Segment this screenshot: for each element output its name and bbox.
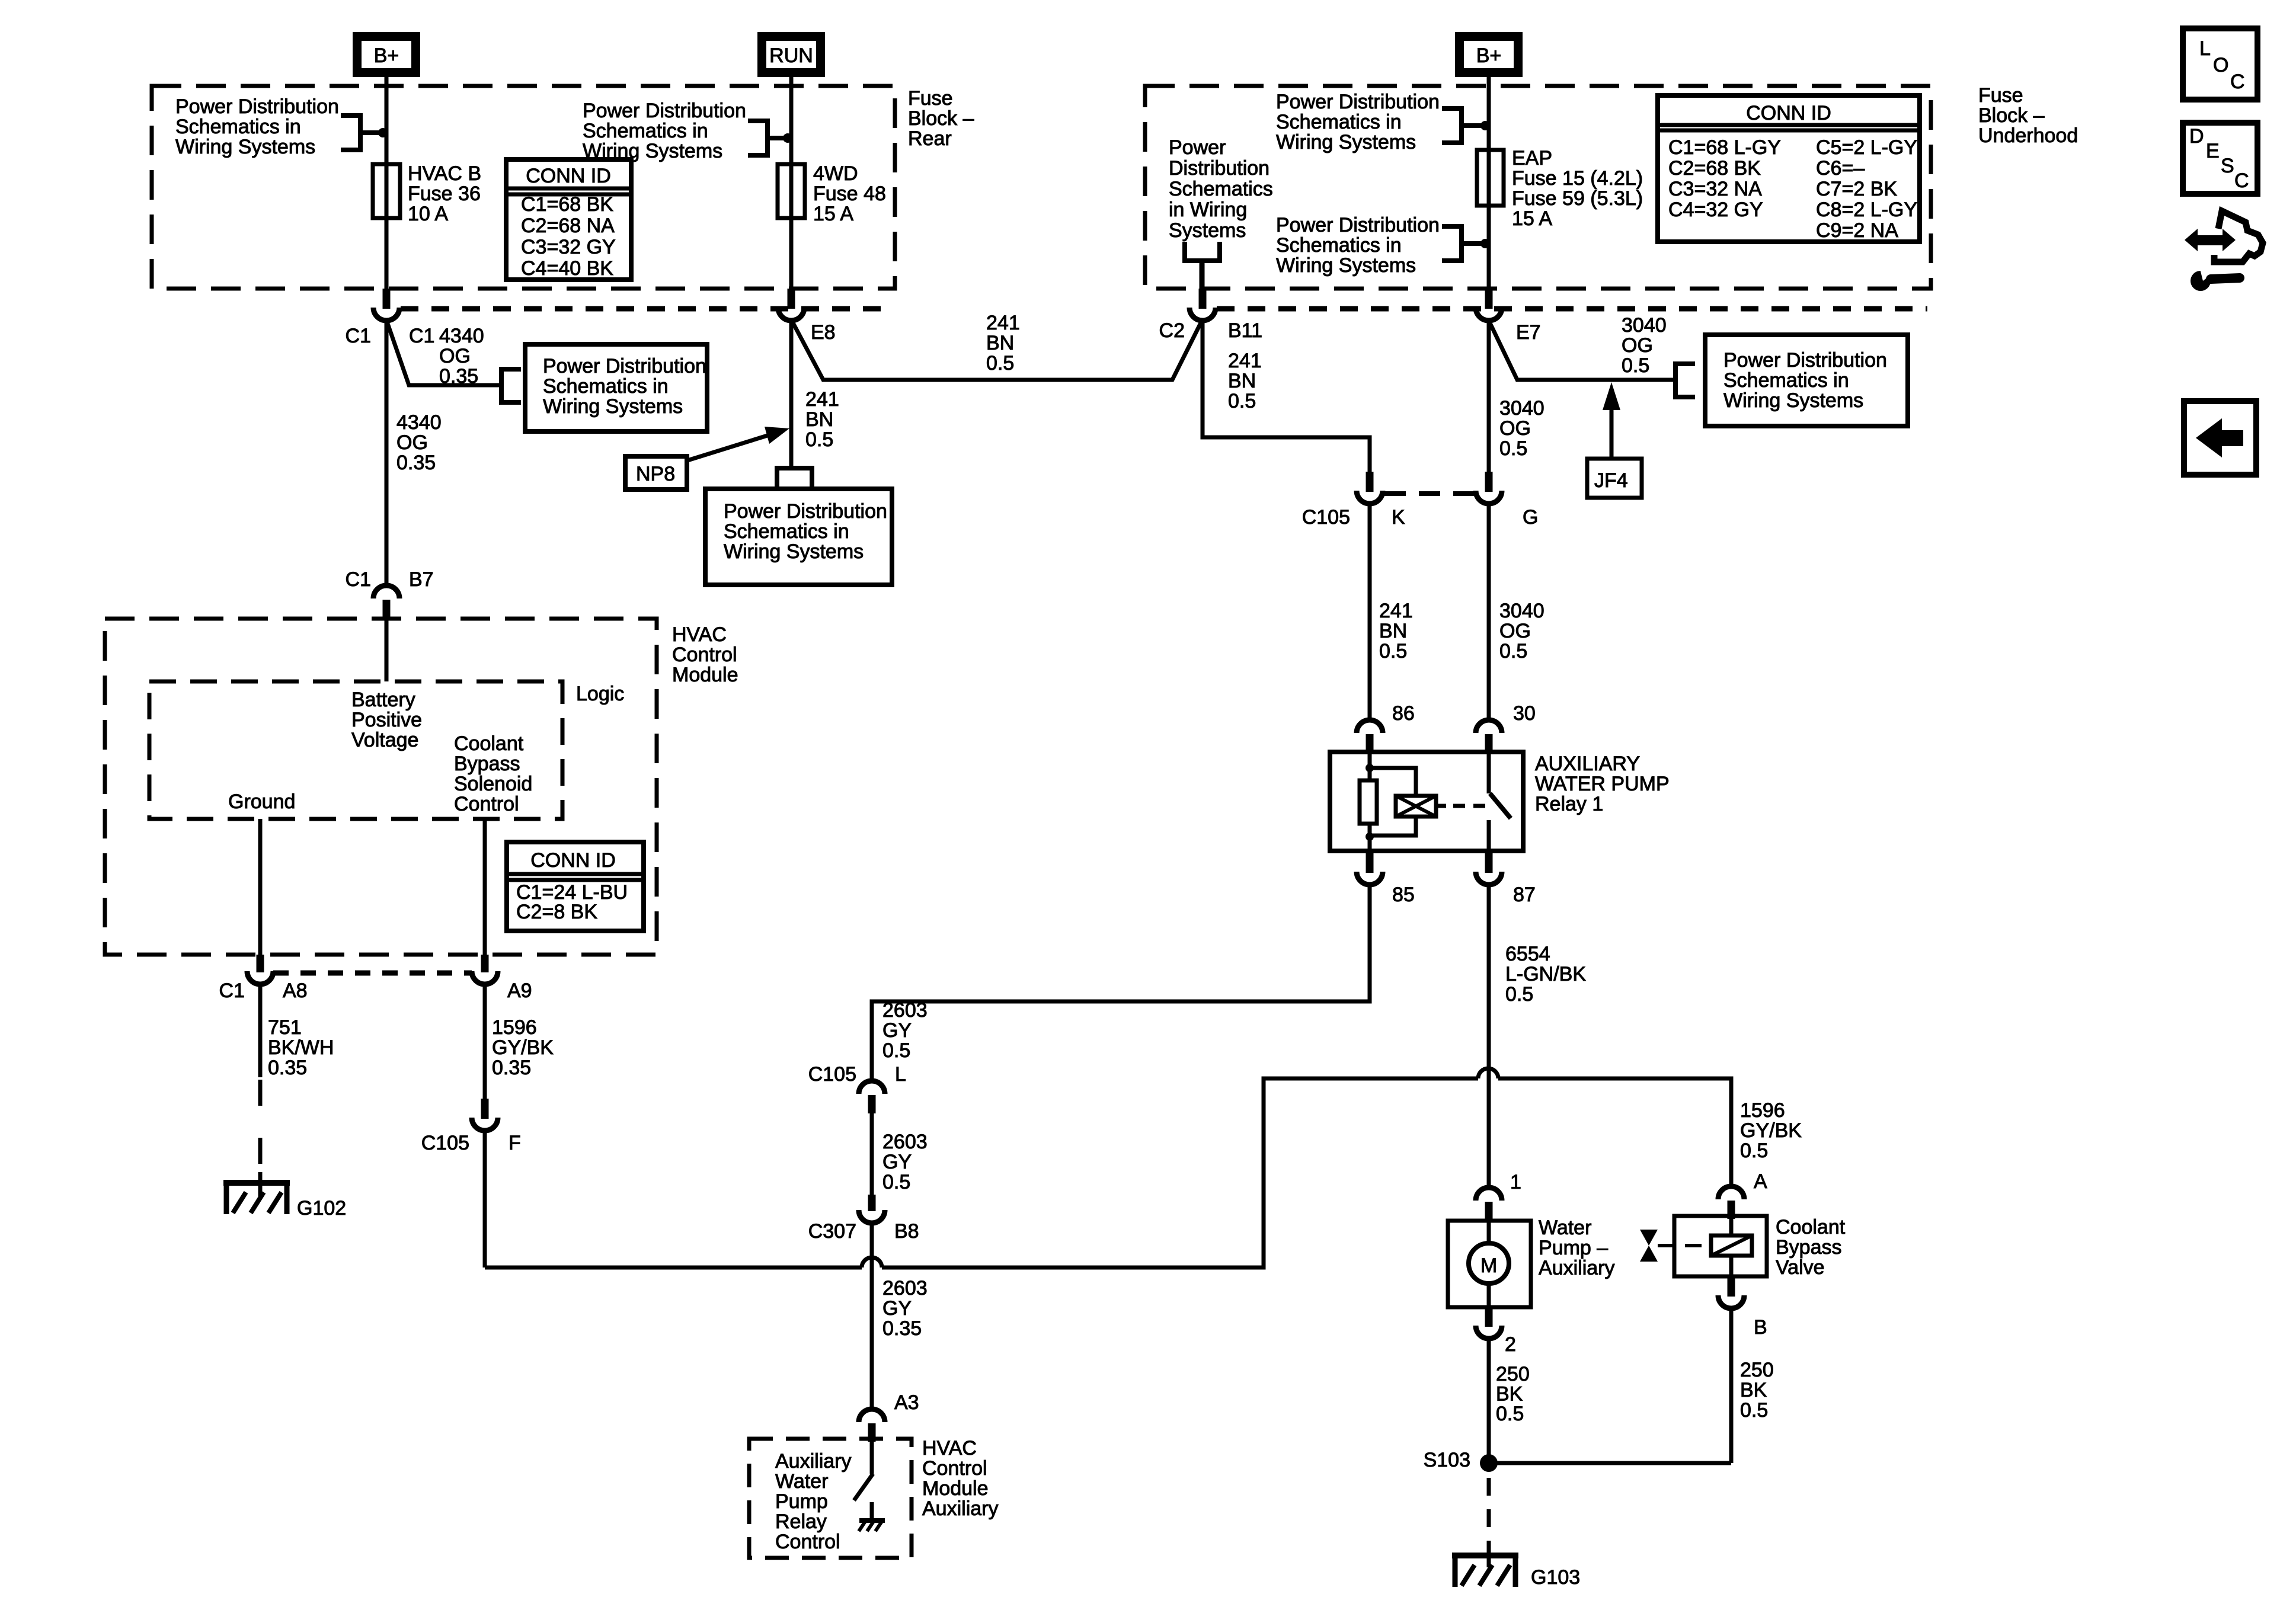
svg-text:A8: A8 bbox=[283, 980, 308, 1002]
svg-text:3040: 3040 bbox=[1499, 600, 1544, 622]
svg-text:CONN ID: CONN ID bbox=[530, 849, 616, 872]
svg-text:Voltage: Voltage bbox=[351, 729, 418, 751]
svg-text:C1: C1 bbox=[409, 325, 434, 347]
svg-text:Power Distribution: Power Distribution bbox=[1276, 214, 1440, 236]
svg-text:15 A: 15 A bbox=[1512, 207, 1552, 230]
svg-text:Schematics in: Schematics in bbox=[583, 120, 708, 142]
svg-text:0.5: 0.5 bbox=[1496, 1403, 1524, 1425]
svg-text:EAP: EAP bbox=[1512, 147, 1552, 169]
svg-text:E8: E8 bbox=[811, 321, 836, 344]
svg-text:G102: G102 bbox=[297, 1197, 346, 1219]
svg-text:L-GN/BK: L-GN/BK bbox=[1505, 963, 1586, 985]
svg-text:4340: 4340 bbox=[396, 411, 442, 434]
svg-text:Wiring Systems: Wiring Systems bbox=[543, 395, 683, 418]
svg-text:86: 86 bbox=[1392, 702, 1415, 725]
svg-text:Water: Water bbox=[775, 1470, 828, 1493]
svg-text:Power Distribution: Power Distribution bbox=[1723, 349, 1887, 372]
svg-text:HVAC: HVAC bbox=[922, 1437, 977, 1459]
svg-text:250: 250 bbox=[1496, 1363, 1530, 1385]
svg-text:Wiring Systems: Wiring Systems bbox=[724, 540, 864, 563]
svg-text:OG: OG bbox=[1499, 417, 1531, 440]
svg-text:RUN: RUN bbox=[769, 44, 813, 67]
svg-text:OG: OG bbox=[439, 345, 471, 367]
svg-text:241: 241 bbox=[1228, 350, 1262, 372]
svg-text:241: 241 bbox=[805, 388, 839, 411]
svg-text:Systems: Systems bbox=[1169, 219, 1246, 242]
svg-text:BK/WH: BK/WH bbox=[268, 1036, 334, 1059]
svg-text:C1: C1 bbox=[346, 568, 371, 591]
svg-text:Bypass: Bypass bbox=[1776, 1236, 1842, 1259]
svg-text:C3=32 GY: C3=32 GY bbox=[521, 236, 616, 258]
svg-text:Fuse 36: Fuse 36 bbox=[408, 183, 481, 205]
svg-text:0.35: 0.35 bbox=[492, 1057, 531, 1079]
svg-text:6554: 6554 bbox=[1505, 943, 1550, 965]
svg-text:0.5: 0.5 bbox=[805, 428, 833, 451]
svg-text:E7: E7 bbox=[1516, 321, 1541, 344]
svg-text:2603: 2603 bbox=[882, 1131, 928, 1153]
svg-text:Pump: Pump bbox=[775, 1490, 828, 1513]
svg-text:in Wiring: in Wiring bbox=[1169, 199, 1247, 221]
svg-text:C2=68 BK: C2=68 BK bbox=[1668, 157, 1761, 180]
svg-text:0.5: 0.5 bbox=[882, 1039, 910, 1062]
svg-text:AUXILIARY: AUXILIARY bbox=[1535, 753, 1640, 775]
svg-text:BN: BN bbox=[1228, 370, 1256, 392]
svg-text:C4=40 BK: C4=40 BK bbox=[521, 257, 613, 280]
svg-text:Pump –: Pump – bbox=[1539, 1237, 1608, 1259]
svg-text:Positive: Positive bbox=[351, 709, 422, 731]
svg-text:C1=68 L-GY: C1=68 L-GY bbox=[1668, 136, 1781, 159]
svg-text:C4=32 GY: C4=32 GY bbox=[1668, 199, 1763, 221]
svg-text:Control: Control bbox=[922, 1457, 987, 1480]
svg-text:0.5: 0.5 bbox=[882, 1171, 910, 1193]
svg-text:C: C bbox=[2234, 169, 2249, 192]
svg-text:C105: C105 bbox=[1302, 506, 1350, 529]
svg-text:1596: 1596 bbox=[1740, 1099, 1785, 1122]
svg-text:Control: Control bbox=[672, 644, 737, 666]
svg-text:Fuse 48: Fuse 48 bbox=[813, 183, 886, 205]
svg-text:0.5: 0.5 bbox=[1499, 640, 1527, 662]
svg-text:Distribution: Distribution bbox=[1169, 157, 1269, 180]
svg-text:C2=68 NA: C2=68 NA bbox=[521, 215, 615, 237]
svg-text:0.5: 0.5 bbox=[1499, 437, 1527, 460]
svg-text:C307: C307 bbox=[808, 1220, 856, 1243]
svg-text:Logic: Logic bbox=[576, 683, 624, 705]
svg-text:Control: Control bbox=[454, 793, 519, 815]
svg-text:Schematics in: Schematics in bbox=[1276, 234, 1402, 257]
svg-text:OG: OG bbox=[1622, 334, 1653, 357]
svg-text:Underhood: Underhood bbox=[1978, 124, 2078, 147]
svg-text:D: D bbox=[2189, 125, 2204, 148]
svg-text:Bypass: Bypass bbox=[454, 753, 520, 775]
svg-text:751: 751 bbox=[268, 1016, 302, 1039]
svg-text:G: G bbox=[1523, 506, 1538, 529]
svg-text:87: 87 bbox=[1513, 884, 1536, 906]
svg-text:C9=2 NA: C9=2 NA bbox=[1816, 219, 1898, 242]
svg-text:Relay 1: Relay 1 bbox=[1535, 793, 1603, 815]
svg-text:OG: OG bbox=[396, 431, 428, 454]
svg-text:C5=2 L-GY: C5=2 L-GY bbox=[1816, 136, 1917, 159]
svg-text:Relay: Relay bbox=[775, 1510, 827, 1533]
svg-text:C2: C2 bbox=[1159, 319, 1185, 342]
svg-text:A3: A3 bbox=[894, 1391, 919, 1414]
svg-text:S: S bbox=[2221, 155, 2234, 177]
svg-text:C6=–: C6=– bbox=[1816, 157, 1865, 180]
svg-text:Control: Control bbox=[775, 1531, 840, 1553]
svg-text:BN: BN bbox=[1379, 620, 1407, 642]
svg-text:B7: B7 bbox=[409, 568, 434, 591]
svg-text:Coolant: Coolant bbox=[454, 732, 524, 755]
svg-text:GY: GY bbox=[882, 1151, 912, 1173]
svg-text:241: 241 bbox=[986, 312, 1020, 334]
svg-text:Power: Power bbox=[1169, 136, 1226, 159]
svg-text:C: C bbox=[2230, 71, 2245, 93]
svg-text:GY: GY bbox=[882, 1297, 912, 1320]
svg-text:3040: 3040 bbox=[1622, 314, 1667, 337]
svg-text:Schematics in: Schematics in bbox=[1723, 369, 1849, 392]
svg-text:C7=2 BK: C7=2 BK bbox=[1816, 178, 1897, 200]
svg-text:C105: C105 bbox=[808, 1063, 856, 1086]
svg-text:G103: G103 bbox=[1531, 1566, 1580, 1589]
svg-text:GY/BK: GY/BK bbox=[1740, 1119, 1802, 1142]
svg-text:C1=68 BK: C1=68 BK bbox=[521, 193, 613, 216]
svg-text:Wiring Systems: Wiring Systems bbox=[1276, 254, 1416, 277]
svg-text:GY/BK: GY/BK bbox=[492, 1036, 554, 1059]
svg-text:B+: B+ bbox=[1476, 44, 1502, 67]
svg-text:Schematics in: Schematics in bbox=[724, 520, 849, 543]
svg-text:Solenoid: Solenoid bbox=[454, 773, 532, 795]
svg-text:Power Distribution: Power Distribution bbox=[724, 500, 887, 523]
svg-text:S103: S103 bbox=[1424, 1449, 1470, 1471]
svg-text:Fuse 59 (5.3L): Fuse 59 (5.3L) bbox=[1512, 187, 1643, 210]
svg-text:F: F bbox=[509, 1132, 521, 1154]
svg-text:Water: Water bbox=[1539, 1217, 1591, 1239]
svg-text:241: 241 bbox=[1379, 600, 1413, 622]
svg-text:0.35: 0.35 bbox=[268, 1057, 307, 1079]
svg-text:Schematics in: Schematics in bbox=[543, 375, 669, 398]
svg-text:Schematics in: Schematics in bbox=[175, 116, 301, 138]
svg-text:C2=8 BK: C2=8 BK bbox=[516, 901, 597, 923]
svg-text:2603: 2603 bbox=[882, 999, 928, 1022]
svg-text:Fuse: Fuse bbox=[1978, 84, 2023, 107]
svg-text:WATER PUMP: WATER PUMP bbox=[1535, 773, 1670, 795]
svg-text:Power Distribution: Power Distribution bbox=[175, 95, 339, 118]
svg-text:Battery: Battery bbox=[351, 689, 415, 711]
svg-text:Block –: Block – bbox=[1978, 104, 2045, 127]
svg-text:B8: B8 bbox=[894, 1220, 919, 1243]
svg-text:0.5: 0.5 bbox=[986, 352, 1014, 375]
svg-text:0.35: 0.35 bbox=[882, 1317, 922, 1340]
svg-text:BN: BN bbox=[805, 408, 833, 431]
svg-text:Wiring Systems: Wiring Systems bbox=[1276, 131, 1416, 153]
svg-text:Module: Module bbox=[922, 1477, 989, 1500]
svg-text:Coolant: Coolant bbox=[1776, 1216, 1846, 1238]
svg-text:Schematics in: Schematics in bbox=[1276, 111, 1402, 133]
svg-text:0.5: 0.5 bbox=[1228, 390, 1256, 412]
svg-text:0.5: 0.5 bbox=[1379, 640, 1407, 662]
svg-text:B11: B11 bbox=[1228, 319, 1262, 342]
svg-text:Power Distribution: Power Distribution bbox=[1276, 91, 1440, 113]
svg-text:L: L bbox=[2199, 37, 2211, 60]
svg-text:4WD: 4WD bbox=[813, 162, 858, 185]
svg-text:Power Distribution: Power Distribution bbox=[583, 100, 746, 122]
svg-text:CONN ID: CONN ID bbox=[1746, 102, 1831, 124]
svg-text:HVAC B: HVAC B bbox=[408, 162, 481, 185]
svg-text:Fuse: Fuse bbox=[908, 87, 953, 110]
svg-text:Module: Module bbox=[672, 664, 738, 686]
svg-text:BK: BK bbox=[1740, 1379, 1767, 1401]
svg-text:O: O bbox=[2213, 54, 2228, 76]
svg-text:Power Distribution: Power Distribution bbox=[543, 355, 706, 377]
svg-text:C3=32 NA: C3=32 NA bbox=[1668, 178, 1762, 200]
svg-text:Auxiliary: Auxiliary bbox=[922, 1497, 998, 1520]
svg-text:GY: GY bbox=[882, 1019, 912, 1042]
svg-text:Rear: Rear bbox=[908, 127, 952, 150]
svg-text:A: A bbox=[1754, 1170, 1767, 1193]
svg-text:250: 250 bbox=[1740, 1359, 1774, 1381]
svg-text:1596: 1596 bbox=[492, 1016, 537, 1039]
svg-text:2: 2 bbox=[1505, 1333, 1516, 1356]
svg-text:JF4: JF4 bbox=[1594, 469, 1628, 492]
svg-text:Fuse 15 (4.2L): Fuse 15 (4.2L) bbox=[1512, 167, 1643, 190]
svg-text:CONN ID: CONN ID bbox=[526, 165, 611, 187]
svg-text:Schematics: Schematics bbox=[1169, 178, 1273, 200]
svg-text:L: L bbox=[895, 1063, 906, 1086]
svg-text:15 A: 15 A bbox=[813, 203, 853, 225]
svg-text:A9: A9 bbox=[507, 980, 532, 1002]
svg-text:Wiring Systems: Wiring Systems bbox=[1723, 389, 1863, 412]
svg-text:0.35: 0.35 bbox=[396, 452, 436, 474]
svg-text:HVAC: HVAC bbox=[672, 623, 727, 646]
svg-text:B: B bbox=[1754, 1316, 1767, 1339]
svg-text:2603: 2603 bbox=[882, 1277, 928, 1299]
svg-text:BK: BK bbox=[1496, 1383, 1523, 1406]
svg-text:4340: 4340 bbox=[439, 325, 484, 347]
svg-text:B+: B+ bbox=[374, 44, 399, 67]
svg-text:0.5: 0.5 bbox=[1740, 1399, 1768, 1422]
svg-text:Wiring Systems: Wiring Systems bbox=[175, 136, 315, 158]
svg-text:E: E bbox=[2206, 140, 2220, 162]
svg-text:K: K bbox=[1392, 506, 1405, 529]
svg-text:3040: 3040 bbox=[1499, 397, 1544, 420]
svg-text:Ground: Ground bbox=[228, 790, 295, 813]
svg-text:BN: BN bbox=[986, 332, 1014, 354]
svg-text:C105: C105 bbox=[421, 1132, 469, 1154]
svg-text:C1: C1 bbox=[219, 980, 245, 1002]
svg-text:0.5: 0.5 bbox=[1740, 1140, 1768, 1162]
svg-text:OG: OG bbox=[1499, 620, 1531, 642]
svg-text:Block –: Block – bbox=[908, 107, 974, 130]
svg-text:C8=2 L-GY: C8=2 L-GY bbox=[1816, 199, 1917, 221]
svg-text:C1: C1 bbox=[346, 325, 371, 347]
svg-text:Wiring Systems: Wiring Systems bbox=[583, 140, 722, 162]
svg-text:M: M bbox=[1480, 1254, 1497, 1277]
svg-text:1: 1 bbox=[1510, 1171, 1521, 1193]
svg-text:10 A: 10 A bbox=[408, 203, 448, 225]
svg-text:Auxiliary: Auxiliary bbox=[775, 1450, 851, 1473]
svg-text:NP8: NP8 bbox=[636, 463, 675, 485]
svg-text:85: 85 bbox=[1392, 884, 1415, 906]
svg-text:Auxiliary: Auxiliary bbox=[1539, 1257, 1614, 1279]
svg-text:0.5: 0.5 bbox=[1505, 983, 1533, 1006]
svg-text:30: 30 bbox=[1513, 702, 1536, 725]
svg-text:Valve: Valve bbox=[1776, 1256, 1825, 1279]
svg-text:0.5: 0.5 bbox=[1622, 354, 1649, 377]
